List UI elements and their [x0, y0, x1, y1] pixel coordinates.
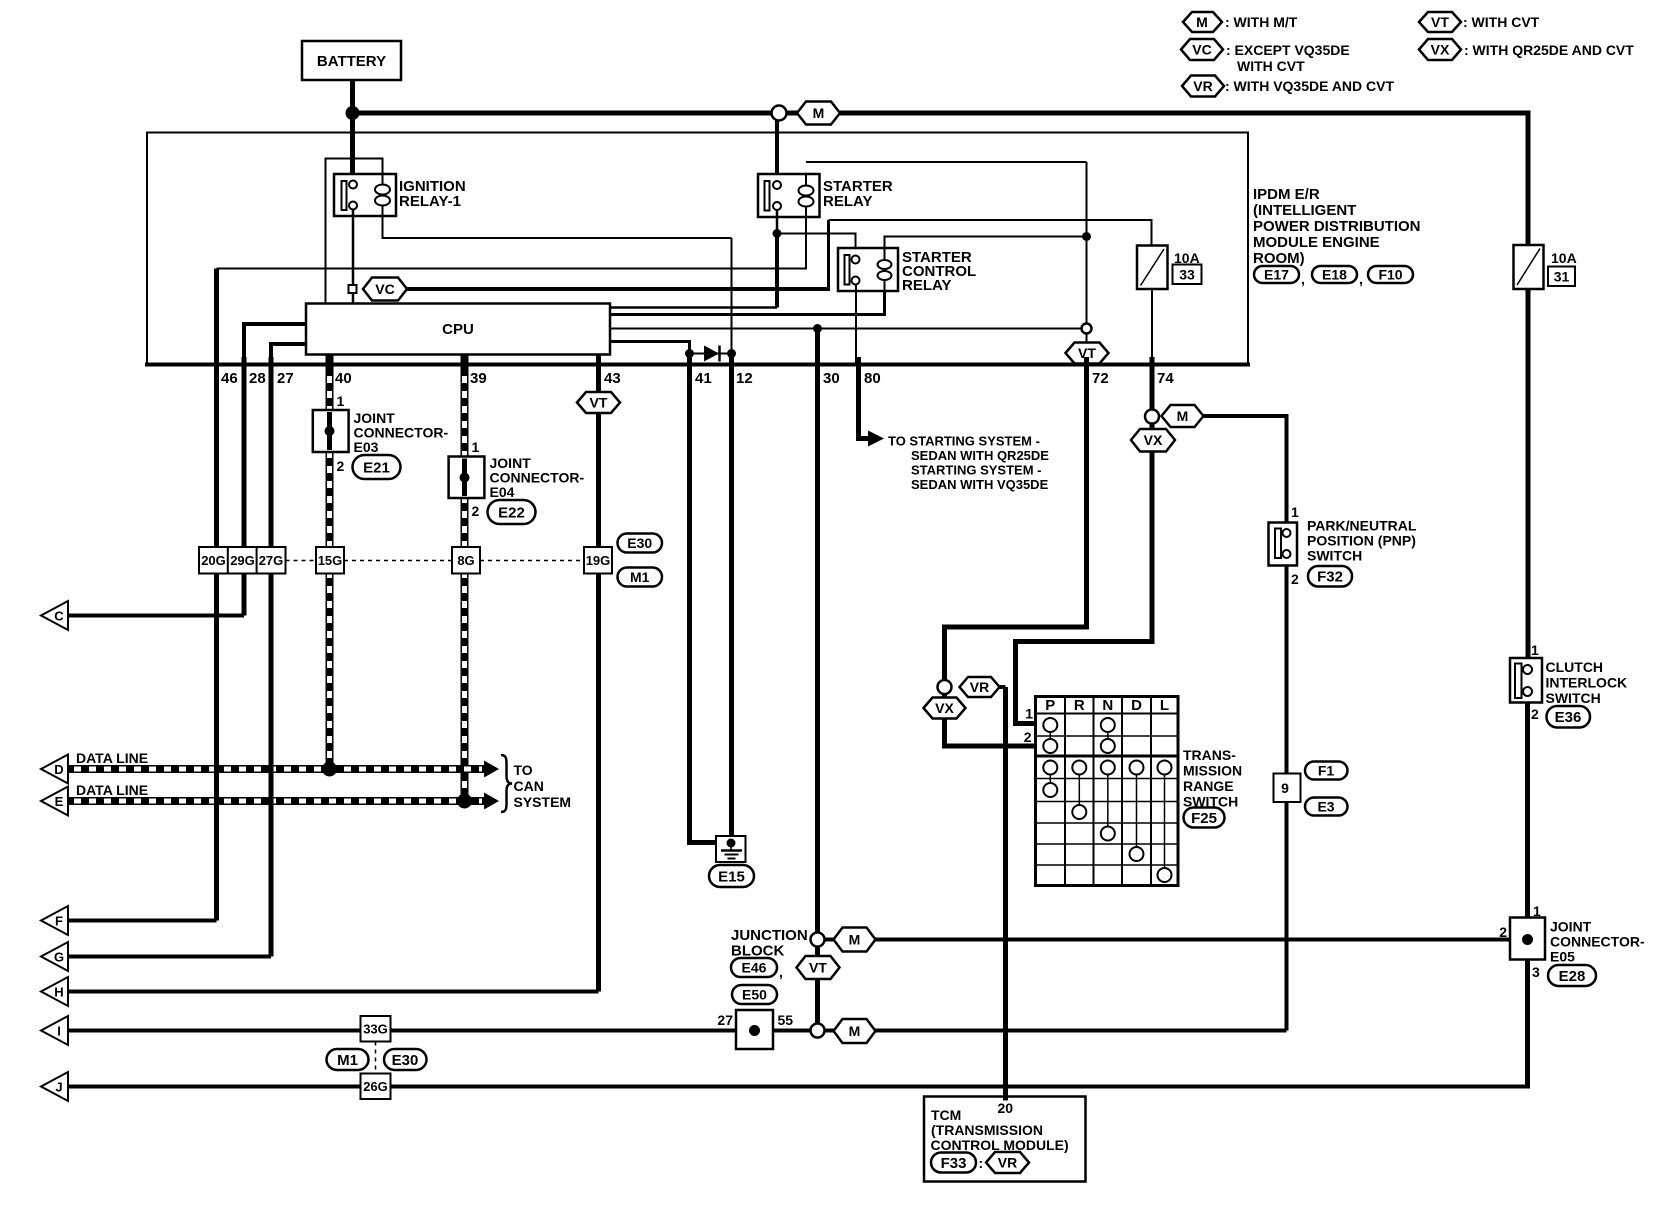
joint connector E05 — [1499, 903, 1545, 980]
svg-text:RANGE: RANGE — [1183, 778, 1234, 794]
svg-text:: WITH QR25DE AND CVT: : WITH QR25DE AND CVT — [1464, 42, 1634, 58]
wire 12 upper — [731, 238, 733, 354]
svg-text:19G: 19G — [586, 553, 611, 568]
box CPU — [306, 304, 610, 355]
svg-text:IPDM E/R: IPDM E/R — [1253, 186, 1320, 203]
svg-text:BATTERY: BATTERY — [317, 53, 386, 70]
wire 30 vertical to junction block — [815, 329, 820, 934]
svg-text:E15: E15 — [718, 869, 745, 886]
svg-text:39: 39 — [470, 370, 487, 387]
svg-text:J: J — [55, 1080, 62, 1095]
tag VT above pin 72 — [1066, 343, 1109, 364]
wire ignition relay contact output to CPU — [352, 210, 355, 304]
wire 43 vertical to triangle H — [596, 355, 601, 992]
svg-text:F33: F33 — [941, 1155, 967, 1172]
tag M junction block upper — [834, 928, 876, 952]
node splice connector on top line — [772, 106, 787, 121]
wire starter control relay coil bottom to CPU — [610, 291, 885, 315]
svg-text:40: 40 — [335, 370, 352, 387]
connector label E18 — [1312, 266, 1363, 287]
svg-text:TO STARTING SYSTEM -: TO STARTING SYSTEM - — [888, 434, 1040, 449]
svg-text:1: 1 — [337, 393, 345, 409]
pin 80 tick and label — [856, 357, 861, 374]
wire junction down to CPU — [775, 234, 779, 308]
wire 46 crossing patch — [214, 762, 219, 808]
svg-text:9: 9 — [1281, 780, 1289, 796]
label JOINT CONNECTOR-E03 — [354, 410, 449, 455]
svg-text:F: F — [55, 914, 63, 929]
node junction starter relay output — [773, 229, 782, 238]
svg-text:POWER DISTRIBUTION: POWER DISTRIBUTION — [1253, 218, 1421, 235]
connector label F33 — [931, 1153, 983, 1173]
switch CLUTCH INTERLOCK E36 — [1510, 642, 1542, 722]
brace to CAN system — [501, 755, 512, 812]
connector 8G — [452, 547, 480, 574]
svg-text:M: M — [813, 105, 825, 121]
svg-text:E18: E18 — [1322, 267, 1347, 283]
svg-text:27: 27 — [277, 370, 294, 387]
svg-text:E3: E3 — [1317, 799, 1334, 815]
relay STARTER CONTROL RELAY — [838, 248, 976, 294]
wire 27 vertical to triangle G — [269, 366, 274, 957]
pin 40 tick and label — [327, 357, 332, 374]
svg-text:VR: VR — [970, 679, 989, 695]
connector label F32 — [1308, 566, 1352, 587]
wire VX branch to range switch pin 2 — [945, 694, 1036, 746]
label JOINT CONNECTOR-E05 — [1550, 919, 1645, 965]
svg-text:VX: VX — [1144, 432, 1163, 448]
svg-text:WITH CVT: WITH CVT — [1237, 58, 1305, 74]
wire starter control relay coil top to feed junction — [885, 237, 1087, 249]
svg-text:VR: VR — [998, 1155, 1017, 1171]
connector 15G — [316, 547, 344, 574]
connector label E22 — [488, 500, 536, 524]
svg-text:SWITCH: SWITCH — [1307, 548, 1362, 564]
connector label E46 — [731, 958, 783, 980]
connector label E36 — [1547, 706, 1591, 728]
svg-text:VT: VT — [590, 395, 608, 411]
legend tag VC — [1181, 39, 1223, 60]
svg-text:33G: 33G — [363, 1022, 388, 1037]
wire dashed connector link — [286, 560, 585, 562]
legend tag VR — [1182, 76, 1224, 97]
junction block box 27 55 — [717, 1010, 793, 1049]
svg-text:C: C — [54, 609, 64, 624]
svg-text:10A: 10A — [1551, 250, 1577, 266]
svg-text:F1: F1 — [1318, 763, 1335, 779]
svg-text:D: D — [1131, 697, 1142, 714]
pin 27 tick and label — [269, 357, 274, 374]
connector label E17 — [1254, 266, 1305, 287]
connector label E21 — [353, 455, 401, 479]
svg-text:31: 31 — [1554, 269, 1570, 285]
node G terminal triangle — [41, 942, 68, 971]
svg-text:28: 28 — [249, 370, 266, 387]
wire E data line — [68, 793, 499, 810]
node junction diode cathode — [727, 349, 736, 358]
pin 72 tick and label — [1084, 357, 1089, 374]
tag VX on 74 branch — [1131, 429, 1175, 452]
svg-text:P: P — [1045, 697, 1055, 714]
node splice connector at pin 72 line — [1082, 324, 1092, 334]
wire starter relay coil top feed — [806, 161, 1087, 163]
svg-text:E46: E46 — [742, 960, 767, 976]
connector 19G — [584, 547, 612, 574]
label TRANSMISSION RANGE SWITCH — [1183, 747, 1242, 810]
tag M on top line — [797, 102, 840, 125]
wire diode link row — [690, 353, 732, 355]
svg-text:8G: 8G — [457, 553, 474, 568]
wire 80 to starting system arrow — [859, 366, 870, 439]
connector label E50 — [732, 985, 777, 1004]
wire 41 to ground — [690, 366, 718, 843]
wire ignition relay coil to CPU top — [326, 159, 383, 304]
wire 27 crossing patch — [269, 762, 274, 808]
battery BATTERY — [302, 41, 401, 80]
svg-text:L: L — [1160, 697, 1169, 714]
wire PNP pin 2 down — [1285, 557, 1289, 1031]
wire 28 vertical to triangle C — [242, 366, 247, 616]
svg-text:M: M — [849, 1023, 861, 1039]
wire 74 VX branch down to range switch pin 1 — [1016, 424, 1153, 724]
svg-text:VC: VC — [375, 281, 394, 297]
svg-text:VT: VT — [1431, 14, 1449, 30]
svg-text:VT: VT — [809, 960, 827, 976]
svg-text:: WITH CVT: : WITH CVT — [1463, 14, 1540, 30]
wire CPU to pin 30 and pin 72 sense line — [610, 328, 1082, 330]
svg-text:: EXCEPT VQ35DE: : EXCEPT VQ35DE — [1226, 42, 1350, 58]
IPDM E/R enclosure box — [145, 133, 1250, 365]
connector row 20G 29G 27G — [199, 547, 286, 574]
pin 74 tick and label — [1150, 357, 1155, 374]
svg-text:1: 1 — [1531, 642, 1539, 658]
svg-text:ROOM): ROOM) — [1253, 250, 1305, 267]
wire to CPU pin (starter relay control) — [610, 306, 777, 309]
wire 39 CAN shielded line — [461, 355, 469, 800]
wire M branch to PNP switch — [1204, 416, 1287, 530]
wire M line junction block to E05 pin 2 — [825, 938, 1511, 942]
svg-text:E22: E22 — [498, 505, 525, 522]
connector 9 on PNP wire — [1274, 774, 1301, 803]
tag VT junction block — [797, 956, 840, 979]
label TO STARTING SYSTEM — [888, 434, 1049, 493]
wire battery to junction — [350, 80, 355, 113]
tag VT on wire 43 — [577, 392, 620, 413]
svg-text:: WITH M/T: : WITH M/T — [1225, 14, 1298, 30]
legend tag M — [1183, 12, 1222, 32]
svg-text:G: G — [54, 950, 64, 965]
svg-text:E17: E17 — [1264, 267, 1289, 283]
svg-text:1: 1 — [1533, 903, 1541, 919]
svg-text:1: 1 — [1025, 706, 1033, 722]
svg-text:,: , — [1359, 271, 1363, 287]
node VC tap connector — [349, 285, 357, 293]
svg-text:SYSTEM: SYSTEM — [514, 794, 572, 810]
svg-text:CONTROL MODULE): CONTROL MODULE) — [931, 1137, 1069, 1153]
legend text EXCEPT VQ35DE WITH CVT — [1226, 42, 1350, 74]
svg-text:SEDAN WITH VQ35DE: SEDAN WITH VQ35DE — [911, 477, 1049, 492]
svg-text:DATA LINE: DATA LINE — [76, 782, 148, 798]
svg-text:26G: 26G — [363, 1079, 388, 1094]
svg-text:INTERLOCK: INTERLOCK — [1546, 675, 1628, 691]
svg-text:E21: E21 — [363, 460, 390, 477]
wire 12 to ground — [729, 354, 734, 840]
svg-text:R: R — [1074, 697, 1085, 714]
svg-text:2: 2 — [472, 503, 480, 519]
tag VC — [363, 278, 407, 301]
switch PARK/NEUTRAL POSITION (PNP) F32 — [1269, 504, 1300, 587]
wire J line to joint connector E05 — [68, 1085, 1528, 1089]
svg-text:E30: E30 — [627, 535, 652, 551]
diode D1 — [704, 346, 720, 362]
node splice junction block lower — [811, 1024, 825, 1038]
svg-text::: : — [979, 1155, 984, 1171]
legend tag VT — [1419, 12, 1461, 32]
joint connector E04 — [449, 439, 485, 519]
pin 46 tick and label — [214, 357, 219, 374]
svg-text:(INTELLIGENT: (INTELLIGENT — [1253, 202, 1356, 219]
module TCM (TRANSMISSION CONTROL MODULE) — [924, 1097, 1086, 1182]
IPDM E/R label text — [1253, 186, 1421, 267]
svg-text:E28: E28 — [1559, 968, 1586, 985]
svg-text:33: 33 — [1179, 267, 1195, 283]
svg-text:2: 2 — [1499, 924, 1507, 940]
svg-text:E04: E04 — [490, 484, 515, 500]
svg-text:TRANS-: TRANS- — [1183, 747, 1236, 763]
svg-text:I: I — [57, 1024, 61, 1039]
svg-text:M: M — [1196, 14, 1208, 30]
svg-text:E36: E36 — [1555, 709, 1582, 726]
svg-text:1: 1 — [1291, 504, 1299, 520]
svg-text:E05: E05 — [1550, 949, 1575, 965]
svg-text:MISSION: MISSION — [1183, 763, 1242, 779]
svg-text:72: 72 — [1092, 370, 1109, 387]
node D terminal triangle — [41, 755, 68, 784]
svg-text:20G: 20G — [201, 553, 226, 568]
wire CPU to pin 27 — [271, 344, 306, 366]
connector label E30 — [618, 534, 663, 553]
svg-text:29G: 29G — [230, 553, 255, 568]
node I terminal triangle — [41, 1016, 68, 1045]
pin 43 tick and label — [596, 357, 601, 374]
svg-text:2: 2 — [1024, 729, 1032, 745]
svg-text:VX: VX — [935, 700, 954, 716]
svg-text:F25: F25 — [1191, 810, 1217, 827]
svg-text:JOINT: JOINT — [1550, 919, 1592, 935]
svg-text:F10: F10 — [1378, 267, 1402, 283]
node junction diode anode — [685, 349, 694, 358]
svg-text:30: 30 — [823, 370, 840, 387]
svg-text:55: 55 — [778, 1012, 794, 1028]
svg-text:JUNCTION: JUNCTION — [731, 927, 808, 944]
node H terminal triangle — [41, 977, 68, 1006]
wire 40 CAN shielded line — [326, 355, 334, 768]
connector label E3 — [1305, 798, 1348, 816]
label JUNCTION BLOCK — [731, 927, 808, 960]
svg-text:3: 3 — [1532, 964, 1540, 980]
pin 12 tick and label — [729, 357, 734, 374]
svg-text:DATA LINE: DATA LINE — [76, 750, 148, 766]
node junction wire 40 to D line — [322, 762, 337, 777]
connector 26G — [361, 1074, 391, 1100]
wire battery to ignition relay contact — [350, 113, 355, 182]
wire I line to PNP branch — [68, 1029, 1287, 1033]
wire 74 below pin — [1150, 366, 1155, 410]
pin 28 tick and label — [242, 357, 247, 374]
wire battery supply top line — [353, 113, 1529, 245]
svg-text:MODULE ENGINE: MODULE ENGINE — [1253, 234, 1380, 251]
node battery junction — [346, 106, 360, 120]
svg-text:D: D — [54, 762, 63, 777]
svg-text:VC: VC — [1192, 42, 1211, 58]
node F terminal triangle — [41, 906, 68, 935]
relay IGNITION RELAY-1 — [334, 174, 466, 216]
pin 41 tick and label — [687, 357, 692, 374]
wire starter relay contact to junction — [776, 210, 779, 234]
svg-text:SWITCH: SWITCH — [1546, 690, 1601, 706]
node splice junction block upper — [811, 933, 825, 947]
svg-text:M: M — [849, 932, 861, 948]
svg-text:2: 2 — [337, 458, 345, 474]
node junction wire 39 to E line — [457, 794, 472, 809]
connector label M1 — [327, 1049, 369, 1070]
tag M junction block lower — [834, 1019, 876, 1043]
connector label F25 — [1184, 808, 1225, 828]
wire ignition relay coil to pin 12 branch — [383, 216, 732, 238]
connector label E28 — [1548, 965, 1596, 986]
label CLUTCH INTERLOCK SWITCH — [1546, 659, 1628, 706]
tag VR in TCM — [986, 1152, 1029, 1173]
svg-text:CONNECTOR-: CONNECTOR- — [1550, 934, 1645, 950]
svg-text:2: 2 — [1291, 571, 1299, 587]
svg-text:VR: VR — [1193, 78, 1212, 94]
node junction pin 30 tap — [813, 324, 822, 333]
svg-text:43: 43 — [604, 370, 621, 387]
svg-text:M: M — [1177, 408, 1189, 424]
connector label E15 — [709, 865, 754, 887]
svg-text:27: 27 — [717, 1012, 733, 1028]
svg-text:CLUTCH: CLUTCH — [1546, 659, 1604, 675]
wire starter relay coil bottom to wire 46 run — [217, 217, 807, 269]
svg-text:RELAY: RELAY — [902, 277, 951, 294]
svg-text:,: , — [779, 964, 783, 980]
node J terminal triangle — [41, 1072, 68, 1101]
svg-text:RELAY-1: RELAY-1 — [399, 193, 461, 210]
svg-text:2: 2 — [1531, 706, 1539, 722]
svg-text:: WITH VQ35DE AND CVT: : WITH VQ35DE AND CVT — [1225, 78, 1394, 94]
svg-text:41: 41 — [695, 370, 712, 387]
connector 33G — [361, 1016, 391, 1042]
svg-text:E30: E30 — [392, 1052, 419, 1069]
wire starter control relay contact to pin 80 — [855, 285, 857, 367]
wire D data line — [68, 761, 499, 778]
svg-text:N: N — [1102, 697, 1113, 714]
node junction coil feed — [1082, 232, 1091, 241]
svg-text:POSITION (PNP): POSITION (PNP) — [1307, 533, 1416, 549]
svg-text:20: 20 — [998, 1100, 1014, 1116]
wire 30 between splices — [815, 947, 820, 1024]
svg-text:PARK/NEUTRAL: PARK/NEUTRAL — [1307, 518, 1417, 534]
joint connector E03 — [313, 393, 349, 474]
wire relay feed vertical to pin 72 — [1086, 162, 1088, 343]
wire E05 pin 3 vertical — [1525, 960, 1530, 1089]
connector label F1 — [1305, 762, 1348, 780]
svg-text:15G: 15G — [318, 553, 343, 568]
svg-text:80: 80 — [864, 370, 881, 387]
svg-text:,: , — [1301, 271, 1305, 287]
svg-text:H: H — [54, 985, 63, 1000]
connector label F10 — [1368, 266, 1413, 283]
relay STARTER RELAY — [758, 174, 893, 217]
svg-text:12: 12 — [736, 370, 753, 387]
connector label E30 — [384, 1049, 427, 1070]
wire CPU to pin 28 — [244, 324, 306, 366]
svg-text:TO: TO — [514, 762, 533, 778]
wire junction to starter control relay contact — [777, 234, 856, 261]
tag VX lower — [924, 698, 966, 719]
ground E15 — [716, 836, 746, 862]
svg-text:TCM: TCM — [931, 1107, 961, 1123]
svg-text:M1: M1 — [630, 569, 650, 585]
node splice on wire 74 — [1145, 410, 1159, 424]
node splice VR junction — [938, 680, 952, 694]
svg-text:E03: E03 — [354, 439, 379, 455]
svg-text:F32: F32 — [1317, 569, 1343, 586]
node C terminal triangle — [41, 601, 68, 630]
svg-text:E: E — [55, 794, 64, 809]
pin 30 tick and label — [815, 357, 820, 374]
tag M on 74 branch — [1162, 405, 1204, 427]
svg-text:27G: 27G — [259, 553, 284, 568]
label JOINT CONNECTOR-E04 — [490, 455, 585, 500]
connector label M1 — [618, 568, 663, 587]
pin 39 tick and label — [462, 357, 467, 374]
fuse 10A 31 — [1514, 245, 1577, 289]
wire 72 to VR junction — [945, 366, 1087, 680]
label PARK/NEUTRAL POSITION (PNP) SWITCH — [1307, 518, 1417, 564]
arrow to starting system — [868, 431, 884, 447]
svg-text:1: 1 — [472, 439, 480, 455]
svg-text:SEDAN WITH QR25DE: SEDAN WITH QR25DE — [911, 448, 1049, 463]
node E terminal triangle — [41, 787, 68, 816]
tag VR — [960, 677, 1000, 697]
wire clutch switch to E05 — [1525, 703, 1530, 918]
wire dashed 33G to 26G — [375, 1042, 377, 1074]
wire CPU to diode — [610, 342, 690, 354]
svg-text:CAN: CAN — [514, 778, 544, 794]
svg-text:CPU: CPU — [442, 321, 474, 338]
wire 46 vertical to triangle F — [214, 269, 219, 921]
svg-text:STARTING SYSTEM -: STARTING SYSTEM - — [911, 463, 1041, 478]
svg-text:E50: E50 — [742, 987, 767, 1003]
svg-text:46: 46 — [221, 370, 238, 387]
svg-text:VX: VX — [1431, 42, 1450, 58]
wire VC line to fuse 33 — [407, 220, 1152, 291]
wire fuse 31 to clutch interlock switch — [1526, 289, 1531, 664]
svg-text:M1: M1 — [337, 1052, 358, 1069]
transmission range switch grid F25 — [1036, 697, 1179, 886]
fuse 10A 33 — [1137, 246, 1202, 290]
wire fuse 33 to pin 74 — [1151, 289, 1153, 366]
legend tag VX — [1419, 39, 1461, 60]
svg-text:(TRANSMISSION: (TRANSMISSION — [931, 1122, 1043, 1138]
wire VR to TCM — [1000, 685, 1006, 689]
wire splice to starter relay contact — [775, 121, 779, 183]
label TO CAN SYSTEM — [514, 762, 572, 810]
svg-text:RELAY: RELAY — [823, 193, 872, 210]
svg-text:74: 74 — [1157, 370, 1174, 387]
